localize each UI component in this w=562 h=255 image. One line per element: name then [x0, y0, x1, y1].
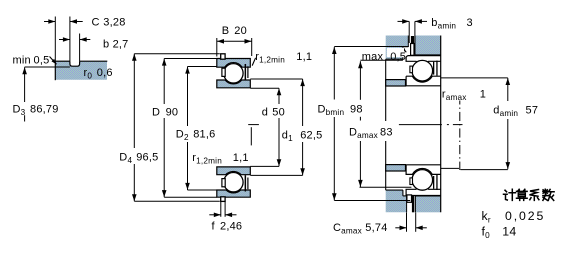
housing bore edge bottom [415, 195, 440, 197]
outer ring top [217, 59, 251, 68]
shield top (Z side) [245, 64, 249, 80]
groove outline (r0) [70, 61, 80, 66]
d1 reference line top (shoulder) [250, 78, 302, 80]
ramax dash-dot leader line [459, 101, 461, 171]
outer ring bottom [217, 190, 251, 197]
svg-text:2,7: 2,7 [113, 39, 129, 51]
svg-text:0,5: 0,5 [34, 55, 50, 67]
housing recess ceiling top [403, 46, 408, 48]
dimension line D3 with up arrow [22, 67, 27, 121]
svg-text:0,6: 0,6 [97, 67, 113, 79]
svg-text:5,74: 5,74 [365, 222, 387, 234]
dimension B 20 [217, 39, 252, 44]
dimension line D2 [185, 67, 190, 191]
left detail top edge right of groove [80, 60, 108, 62]
leader for upper r1,2min [252, 58, 255, 66]
snap ring section top [411, 36, 415, 55]
whiteout for D2 81,6 [174, 126, 216, 142]
centerline tick [248, 124, 259, 126]
dimension line d [277, 88, 282, 166]
housing recess edge bottom [403, 195, 407, 197]
svg-text:max: max [362, 51, 384, 63]
bearing right face / housing bore face [440, 36, 442, 213]
svg-text:62,5: 62,5 [300, 130, 322, 142]
bamin extension line right [414, 21, 416, 43]
svg-text:b: b [103, 39, 109, 51]
svg-text:1,1: 1,1 [296, 51, 312, 63]
svg-text:2,46: 2,46 [220, 220, 242, 232]
D2 reference line bottom [188, 189, 217, 191]
whiteout for D4 96,5 [118, 149, 159, 165]
section boundary left lower [385, 141, 387, 190]
whiteout for d1 62,5 [280, 127, 326, 143]
dimension line Damax [358, 61, 363, 187]
slot left edge top [407, 36, 409, 47]
mounted bearing inner ring bottom (unfilled) [406, 165, 441, 175]
Db reference line bottom [334, 200, 410, 202]
cage bar top [222, 68, 225, 76]
whiteout for damin 57 [491, 102, 541, 120]
D3 reference line at groove bottom level [25, 66, 70, 68]
housing bore edge top [415, 54, 441, 56]
Db reference line top (snap ring OD) [334, 46, 409, 48]
cage bar bottom [222, 179, 225, 187]
svg-text:D: D [152, 107, 160, 119]
B extension line left [216, 38, 218, 57]
mounted ball bottom [412, 170, 433, 191]
middle bearing outer ring top section [217, 59, 251, 68]
dimension line d1 [300, 79, 305, 175]
housing shoulder bore edge top [386, 58, 403, 60]
middle bearing inner ring bottom section [217, 167, 251, 175]
f extension line left [220, 201, 222, 216]
f extension line right [224, 201, 226, 216]
left detail: outer ring snap-ring groove section [55, 61, 107, 80]
D2 reference line top (shield groove) [188, 66, 217, 68]
svg-text:min: min [13, 55, 31, 67]
leader for max 0,5 [402, 48, 406, 52]
extension line from groove left wall [69, 17, 71, 62]
middle bearing inner ring top section [217, 80, 251, 88]
whiteout for Dbmin 98 [316, 100, 365, 117]
left detail top edge left of groove [55, 60, 70, 62]
dimension bamin 3 [398, 19, 428, 24]
dimension f 2,46 [209, 213, 236, 218]
Damax reference line top [360, 59, 403, 61]
svg-text:C: C [92, 16, 100, 28]
whiteout for D 90 [150, 105, 179, 119]
svg-text:98: 98 [350, 104, 363, 116]
snap ring section bottom [407, 195, 414, 212]
svg-text:90: 90 [166, 107, 179, 119]
dimension line Dbmin [332, 47, 337, 200]
middle bearing outer ring bottom section [217, 190, 251, 197]
Damax reference line bottom [360, 186, 412, 188]
slot right edge top [414, 36, 416, 55]
snap ring lug bottom [221, 197, 225, 202]
damin reference line bottom a [441, 167, 459, 169]
svg-text:0,025: 0,025 [505, 209, 545, 223]
svg-text:50: 50 [272, 106, 285, 118]
shaft shoulder section bottom [386, 165, 406, 171]
housing shoulder bore edge bottom [386, 189, 403, 191]
Camax extension line left [406, 213, 408, 232]
shaft shoulder section top [386, 80, 406, 86]
d1 reference line bottom [250, 174, 302, 176]
whiteout for 0,5 on housing [387, 48, 404, 57]
svg-text:14: 14 [502, 225, 516, 239]
title 计算系数 (calculation factors) [504, 189, 555, 200]
axis centerline right figure [399, 124, 463, 126]
B extension line right [251, 38, 253, 56]
housing shoulder face bottom [402, 190, 404, 196]
ball bottom [224, 173, 243, 192]
inner ring top [217, 80, 251, 88]
dimension b 2,7 [59, 37, 90, 42]
leader for min 0,5 [50, 57, 57, 65]
dimension Camax 5,74 [395, 226, 427, 231]
mounted bearing outer ring bottom (unfilled) [406, 187, 441, 195]
svg-text:3: 3 [467, 17, 473, 29]
d reference line bottom [250, 165, 279, 167]
ball top [224, 64, 243, 83]
section boundary left upper [385, 59, 387, 121]
svg-text:0,5: 0,5 [390, 51, 406, 63]
housing section bottom [386, 190, 441, 212]
extension line from face [54, 17, 56, 62]
D4 reference line bottom [134, 200, 220, 202]
D reference line bottom [164, 196, 217, 198]
D reference line top (OD) [164, 58, 217, 60]
snap ring lug top [221, 54, 225, 59]
D4 reference line top (snap ring OD) [134, 53, 220, 55]
mounted cage bar top [410, 66, 413, 73]
shield bottom (Z side) [245, 175, 249, 191]
dimension C 3,28 [44, 19, 83, 24]
dimension line D [162, 59, 167, 198]
mounted cage bar bottom [410, 178, 413, 185]
svg-text:3,28: 3,28 [103, 16, 125, 28]
extension line from groove right wall [79, 34, 81, 62]
d reference line top (bore) [250, 87, 279, 89]
bamin extension line left [408, 21, 410, 43]
svg-text:81,6: 81,6 [193, 129, 215, 141]
dimension line D4 [132, 54, 137, 202]
svg-text:86,79: 86,79 [30, 104, 59, 116]
svg-text:57: 57 [526, 105, 539, 117]
svg-text:1: 1 [480, 89, 486, 101]
mounted shield bottom [433, 175, 438, 190]
svg-text:B: B [222, 25, 230, 37]
damin reference line top (shoulder) [441, 77, 508, 79]
mounted bearing inner ring top (unfilled) [406, 76, 441, 86]
left detail left face edge [54, 61, 56, 80]
svg-text:20: 20 [234, 25, 247, 37]
svg-text:1,1: 1,1 [233, 152, 249, 164]
Camax extension line right [415, 213, 417, 232]
slot right edge bottom [414, 196, 416, 212]
housing shoulder face top [402, 47, 404, 60]
svg-text:96,5: 96,5 [136, 152, 158, 164]
mounted ball top [412, 60, 433, 81]
damin reference line bottom b [461, 169, 508, 171]
leader stub for lower r1,2min [250, 127, 252, 145]
housing section top [386, 36, 441, 60]
whiteout for d 50 [260, 105, 288, 118]
mounted bearing outer ring top (unfilled) [406, 56, 441, 64]
mounted shield top [433, 61, 438, 76]
svg-text:83: 83 [380, 127, 393, 139]
inner ring bottom [217, 167, 251, 175]
whiteout for Damax 83 [347, 122, 398, 142]
dimension line damin [506, 78, 511, 169]
slot left edge bottom [406, 196, 408, 212]
svg-text:d: d [262, 106, 268, 118]
whiteout for D3 label [11, 103, 60, 115]
